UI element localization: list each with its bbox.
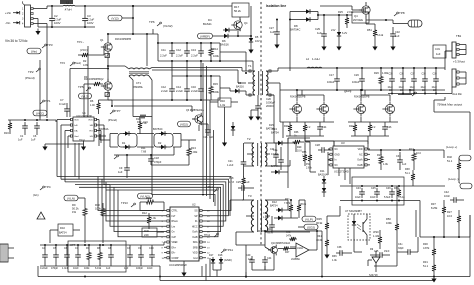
diode D15: [274, 216, 291, 220]
wire lower rail: [114, 147, 174, 156]
resistor R21b: [284, 198, 293, 218]
svg-text:C10: C10: [149, 247, 154, 250]
transistor Q3: [320, 2, 375, 24]
capacitor C15: [176, 76, 190, 100]
capacitor C12: [176, 43, 190, 58]
wire bundle left drops: [98, 134, 164, 237]
svg-text:(VLN2): (VLN2): [140, 194, 150, 198]
svg-text:10uF: 10uF: [410, 87, 416, 89]
svg-text:100k: 100k: [213, 54, 219, 58]
svg-text:P18: P18: [229, 177, 234, 180]
svg-text:D5: D5: [255, 35, 259, 39]
svg-text:C37: C37: [411, 74, 416, 76]
svg-text:C12: C12: [161, 85, 166, 89]
diode D9 TL431: [368, 248, 380, 277]
pad G2: [105, 93, 110, 97]
svg-text:(Loop -): (Loop -): [448, 177, 459, 181]
svg-text:5.11: 5.11: [400, 196, 405, 199]
svg-text:(Vin): (Vin): [31, 49, 37, 53]
optocoupler U7: [345, 209, 370, 240]
resistor R18: [229, 177, 246, 201]
svg-text:C18: C18: [154, 156, 159, 160]
capacitor C18: [148, 155, 162, 165]
resistor P21: [306, 163, 316, 172]
svg-text:(VLN2): (VLN2): [163, 24, 173, 28]
svg-text:R36: R36: [332, 255, 337, 258]
diode D16: [231, 122, 235, 136]
capacitor C22: [263, 212, 275, 232]
svg-text:(PGnd): (PGnd): [25, 76, 35, 80]
svg-text:2.2uF: 2.2uF: [191, 89, 198, 93]
diode D14b: [233, 82, 246, 95]
resistor R46 box: [142, 228, 164, 237]
svg-text:T3: T3: [248, 194, 252, 198]
testpoint TP10: [114, 155, 119, 159]
wire bank1 bottom: [158, 43, 253, 71]
svg-text:3: 3: [22, 18, 24, 21]
transistor Q8: [361, 95, 395, 117]
svg-text:(PGnd): (PGnd): [108, 118, 117, 122]
testpoint TP9: [398, 92, 417, 96]
svg-text:R31: R31: [423, 260, 428, 264]
resistor R32: [447, 155, 461, 176]
node Vin oval: [27, 43, 53, 54]
connector J1 input: [22, 2, 33, 28]
wire G2 run: [111, 105, 192, 112]
svg-text:7.68: 7.68: [141, 150, 147, 154]
capacitor C2: [49, 6, 61, 27]
svg-text:Gnd: Gnd: [193, 258, 198, 260]
svg-text:0.1uF: 0.1uF: [59, 102, 66, 106]
svg-text:OvP: OvP: [172, 237, 177, 239]
resistor R24b: [297, 200, 307, 218]
resistor R31: [423, 260, 436, 276]
svg-text:(VL2): (VL2): [81, 94, 88, 98]
svg-text:R51: R51: [367, 28, 372, 32]
svg-text:OutB: OutB: [357, 164, 363, 167]
svg-text:EA+: EA+: [172, 246, 177, 249]
wire bank1 feed: [158, 43, 246, 71]
wire FET sources: [272, 83, 398, 122]
svg-text:VDD: VDD: [88, 120, 93, 122]
resistor R2: [78, 47, 104, 67]
testpoint TP4: [33, 185, 51, 197]
svg-text:(VCC): (VCC): [80, 48, 88, 52]
svg-text:(VREF): (VREF): [200, 34, 210, 38]
svg-text:L2: L2: [306, 57, 310, 61]
capacitor C3: [82, 5, 94, 27]
svg-text:0.22uF: 0.22uF: [40, 267, 48, 270]
resistor R34: [394, 187, 405, 199]
+Vin terminal: [5, 11, 20, 15]
capacitor output bank: [388, 67, 439, 95]
svg-text:TP1 ›: TP1 ›: [77, 40, 84, 44]
svg-text:GND: GND: [335, 154, 340, 156]
svg-text:13: 13: [207, 247, 210, 249]
svg-text:1.2uF: 1.2uF: [227, 164, 234, 167]
svg-text:R22: R22: [349, 125, 354, 128]
svg-text:JP20: JP20: [373, 231, 379, 234]
resistor R43: [140, 196, 164, 211]
resistor R15: [209, 76, 219, 100]
svg-text:BAT54: BAT54: [59, 232, 67, 235]
label VCC gate: [77, 40, 88, 52]
node Sw1: [60, 61, 81, 66]
svg-text:TP12: TP12: [204, 234, 211, 237]
resistor R23: [368, 122, 376, 136]
transistor Q5: [289, 89, 305, 117]
wire outbank top: [444, 68, 446, 70]
ground R41: [324, 252, 329, 259]
capacitor C38: [332, 246, 352, 262]
svg-text:R27: R27: [377, 153, 382, 157]
svg-text:TP4: TP4: [45, 185, 51, 189]
svg-text:10nF: 10nF: [73, 267, 79, 270]
wire U3 area: [288, 138, 350, 184]
svg-text:Q4: Q4: [244, 21, 248, 25]
svg-text:TP2: TP2: [28, 70, 34, 74]
svg-text:CTRL: CTRL: [172, 211, 179, 213]
transistor Q2: [84, 77, 112, 93]
svg-text:7: 7: [162, 242, 164, 244]
transistor Q3 box: [352, 12, 369, 23]
wire gates: [286, 136, 389, 146]
label R11: [141, 146, 147, 154]
resistor R38: [405, 168, 415, 186]
capacitor C9: [118, 155, 130, 178]
ground U1: [42, 141, 86, 151]
node VLN oval: [64, 195, 85, 201]
transistor Q10: [267, 228, 291, 262]
capacitor C47: [246, 254, 255, 270]
svg-text:2: 2: [22, 13, 24, 16]
capacitor C33: [396, 152, 407, 170]
svg-text:C29: C29: [315, 27, 320, 31]
svg-text:C7: C7: [60, 98, 64, 102]
svg-text:R38: R38: [405, 168, 410, 171]
node VLP oval: [302, 216, 316, 222]
svg-text:R46: R46: [144, 229, 149, 233]
svg-text:BAT54: BAT54: [266, 128, 274, 131]
svg-text:8.25k: 8.25k: [431, 206, 438, 210]
svg-text:11: 11: [207, 258, 210, 260]
svg-text:R27: R27: [447, 210, 452, 214]
svg-text:R37: R37: [431, 202, 436, 206]
svg-text:(GND): (GND): [224, 258, 232, 262]
svg-text:4: 4: [22, 23, 24, 26]
svg-text:1.0nF: 1.0nF: [62, 267, 69, 270]
block filter border: [352, 177, 404, 205]
svg-text:R50: R50: [386, 217, 391, 221]
svg-text:RJK1605DPB: RJK1605DPB: [84, 77, 100, 81]
svg-text:R26: R26: [374, 71, 379, 75]
svg-text:TP13: TP13: [121, 201, 128, 205]
svg-text:FLT: FLT: [172, 216, 177, 218]
svg-text:2.2uF: 2.2uF: [160, 54, 167, 58]
wire VCC right: [55, 120, 57, 122]
testpoint TP1: [33, 99, 51, 120]
capacitor C7: [59, 98, 70, 117]
wire bundle verticals: [199, 61, 214, 202]
svg-text:347k: 347k: [286, 235, 292, 238]
svg-text:56.2k: 56.2k: [234, 9, 241, 13]
wire U3 top: [305, 141, 368, 149]
capacitor C17: [327, 68, 340, 90]
capacitor C1a: [271, 147, 284, 170]
connector output rtn: [452, 69, 466, 94]
resistor R47: [368, 148, 444, 170]
capacitor C16: [191, 76, 204, 100]
svg-text:+3.3Vout: +3.3Vout: [453, 60, 465, 64]
svg-text:TP1: TP1: [45, 99, 51, 103]
svg-text:!: !: [40, 215, 41, 219]
svg-text:SRA: SRA: [193, 241, 198, 244]
connector left edge: [0, 244, 14, 262]
svg-text:HS: HS: [90, 136, 94, 138]
svg-text:100pF: 100pF: [136, 267, 144, 270]
node SO2 oval: [298, 224, 318, 230]
svg-text:(Loop +): (Loop +): [446, 145, 457, 149]
capacitor C20: [255, 95, 275, 114]
svg-text:TP6: TP6: [149, 20, 155, 24]
svg-text:100k: 100k: [213, 90, 219, 94]
testpoint TP5: [78, 85, 92, 99]
svg-text:10uF: 10uF: [421, 87, 427, 89]
svg-text:SP: SP: [194, 216, 198, 218]
svg-text:InB: InB: [74, 125, 78, 127]
diode D11: [318, 169, 328, 197]
testpoint TP6: [146, 20, 173, 66]
op-amp U1 box: [73, 111, 94, 141]
label Vin range: [5, 39, 28, 43]
svg-text:100V: 100V: [87, 21, 94, 25]
svg-text:16V: 16V: [255, 39, 260, 43]
svg-text:C43: C43: [356, 187, 361, 190]
svg-text:100uF: 100uF: [327, 80, 335, 84]
svg-text:249: 249: [144, 233, 149, 237]
wire bank to U2: [120, 242, 164, 245]
capacitor C44: [262, 256, 272, 270]
svg-text:100k: 100k: [84, 267, 90, 270]
capacitor C50: [147, 245, 155, 270]
svg-text:1.0k: 1.0k: [220, 103, 226, 107]
svg-text:(VCC): (VCC): [36, 111, 44, 115]
svg-text:VREF: VREF: [172, 242, 179, 244]
svg-text:10.0: 10.0: [447, 214, 453, 218]
svg-text:SS: SS: [194, 211, 198, 213]
svg-text:HO: HO: [90, 131, 94, 133]
svg-text:C3x: C3x: [398, 243, 403, 246]
svg-text:BAT54: BAT54: [270, 205, 278, 208]
resistor R33: [431, 200, 446, 237]
svg-text:78.7k: 78.7k: [267, 232, 274, 235]
label +3.3Vout top: [453, 60, 465, 64]
node V12 oval: [108, 5, 134, 34]
svg-text:C21: C21: [228, 160, 233, 163]
svg-text:-Vin: -Vin: [5, 21, 11, 25]
svg-text:10nF: 10nF: [444, 194, 450, 198]
svg-text:R14: R14: [213, 47, 218, 51]
wire fb right: [420, 215, 470, 238]
transistor Q3b: [186, 109, 204, 131]
svg-text:U7 SFH690BT: U7 SFH690BT: [345, 209, 362, 213]
svg-text:Vout Rtn: Vout Rtn: [452, 92, 463, 96]
svg-text:1.00k: 1.00k: [191, 150, 198, 154]
op-amp U10A: [285, 242, 317, 261]
svg-text:D12: D12: [272, 200, 277, 204]
svg-text:1.00: 1.00: [90, 104, 95, 107]
svg-text:4.87k: 4.87k: [423, 246, 430, 250]
label GND net: [204, 233, 233, 262]
svg-text:TB1: TB1: [456, 34, 462, 38]
svg-text:100uF: 100uF: [352, 80, 360, 84]
svg-text:Gnd: Gnd: [74, 136, 79, 138]
wire bottom center mesh: [230, 199, 322, 278]
svg-text:14: 14: [207, 242, 210, 244]
svg-text:TP5: TP5: [78, 85, 84, 89]
op-amp U3: [328, 141, 370, 174]
resistor R20: [284, 122, 292, 136]
svg-text:1: 1: [22, 8, 24, 11]
svg-text:8: 8: [162, 247, 164, 249]
svg-text:1uF: 1uF: [124, 267, 129, 270]
svg-text:C35: C35: [374, 250, 379, 253]
svg-text:TP4: TP4: [60, 61, 65, 65]
svg-text:InA: InA: [74, 130, 78, 133]
svg-text:1.0k: 1.0k: [151, 216, 157, 220]
component bank border: [68, 241, 126, 272]
testpoint TP14: [206, 185, 219, 192]
svg-text:C39: C39: [433, 74, 438, 76]
resistor R27: [377, 151, 389, 170]
resistor R16: [4, 120, 12, 135]
svg-text:Isolation line: Isolation line: [266, 4, 286, 8]
svg-text:100k: 100k: [95, 207, 101, 211]
diode D8: [289, 12, 352, 72]
testpoint TP7: [108, 109, 121, 122]
svg-text:1uF: 1uF: [18, 138, 23, 142]
svg-text:2.2uF: 2.2uF: [191, 54, 198, 58]
wire top rail: [75, 5, 232, 7]
svg-text:R41: R41: [317, 234, 322, 238]
resistor R22: [349, 122, 357, 136]
svg-text:C25: C25: [236, 180, 241, 184]
wire diode loops: [104, 134, 196, 148]
testpoint TP2: [25, 68, 40, 80]
svg-text:10.0: 10.0: [416, 152, 421, 155]
svg-text:NC: NC: [335, 149, 339, 151]
svg-text:TP3: TP3: [47, 43, 53, 47]
resistor R13: [187, 140, 198, 165]
svg-text:(VLP): (VLP): [305, 217, 313, 221]
page tab mark: [60, 0, 73, 4]
wire fb mesh: [327, 206, 397, 266]
svg-text:(Sw1): (Sw1): [74, 61, 81, 65]
svg-text:1.2uH: 1.2uH: [312, 57, 319, 61]
svg-text:C26: C26: [387, 126, 392, 129]
svg-text:7.87k: 7.87k: [284, 202, 291, 205]
resistor R28: [386, 186, 399, 236]
resistor R10: [95, 203, 105, 243]
transistor Q4: [231, 19, 248, 37]
svg-text:R34: R34: [394, 187, 399, 190]
isolation line dashed: [260, 2, 262, 246]
node VD2 oval: [178, 121, 191, 127]
svg-text:2000V: 2000V: [266, 104, 274, 108]
svg-text:D11: D11: [320, 169, 325, 173]
capacitor C46: [384, 187, 395, 199]
label OPT: [70, 243, 76, 247]
svg-text:Q2: Q2: [100, 77, 104, 81]
wire right verticals: [274, 122, 310, 232]
wire bank2 columns: [172, 61, 201, 76]
node VLN2 oval: [138, 193, 153, 199]
ground D5: [248, 47, 253, 54]
svg-text:C9: C9: [119, 166, 123, 170]
svg-text:470pF: 470pF: [154, 160, 162, 164]
capacitor C42: [444, 190, 464, 203]
resistor R9: [72, 198, 87, 243]
svg-text:C49: C49: [246, 254, 251, 257]
svg-text:1uF: 1uF: [31, 138, 36, 142]
wire fb top rail: [340, 185, 445, 187]
svg-text:1W: 1W: [72, 210, 76, 214]
svg-text:COMP: COMP: [172, 258, 179, 260]
svg-text:2.2: 2.2: [307, 126, 311, 129]
svg-text:5.11k: 5.11k: [377, 33, 384, 37]
label Loop+: [446, 145, 471, 161]
svg-text:0.33uF: 0.33uF: [271, 153, 279, 156]
wire secondary mid: [280, 89, 445, 91]
svg-text:D1: D1: [122, 141, 126, 145]
transformer T3: [242, 194, 274, 232]
op-amp U2 controller: [162, 203, 211, 268]
testpoint TP13: [121, 201, 136, 207]
svg-text:SJ4718: SJ4718: [369, 274, 378, 277]
wire +Vin rail: [33, 5, 63, 9]
resistor R25: [338, 10, 375, 28]
wire outbank bottom: [388, 93, 452, 95]
svg-text:10nF: 10nF: [147, 267, 153, 270]
svg-text:OutB: OutB: [192, 236, 198, 239]
capacitor C31 box: [433, 45, 452, 58]
svg-text:2.61k: 2.61k: [306, 167, 313, 170]
pad G1: [105, 54, 110, 58]
capacitor C19: [352, 68, 365, 90]
svg-text:C32: C32: [395, 30, 400, 34]
svg-text:⨁Grig: ⨁Grig: [344, 89, 352, 93]
wire gate feeds: [84, 46, 88, 117]
resistor R19: [367, 24, 384, 51]
svg-text:C24: C24: [322, 126, 327, 129]
svg-text:R11: R11: [141, 146, 146, 150]
svg-text:RSum: RSum: [172, 221, 178, 223]
svg-text:C1a: C1a: [273, 149, 278, 152]
diode D18: [213, 254, 223, 277]
capacitor C35b: [370, 250, 390, 258]
svg-text:NC: NC: [335, 165, 339, 167]
capacitor bank bottom: [40, 244, 114, 270]
svg-text:PGnd: PGnd: [79, 139, 85, 141]
svg-text:Lim: Lim: [172, 226, 176, 228]
svg-text:(SO2): (SO2): [307, 225, 315, 229]
svg-text:R30: R30: [423, 242, 428, 246]
connector P1 hatch: [408, 20, 422, 27]
wire VCC rail: [8, 119, 56, 121]
svg-text:1uF: 1uF: [106, 267, 111, 270]
resistor JP20: [373, 230, 382, 249]
svg-text:(VD2): (VD2): [180, 122, 188, 126]
